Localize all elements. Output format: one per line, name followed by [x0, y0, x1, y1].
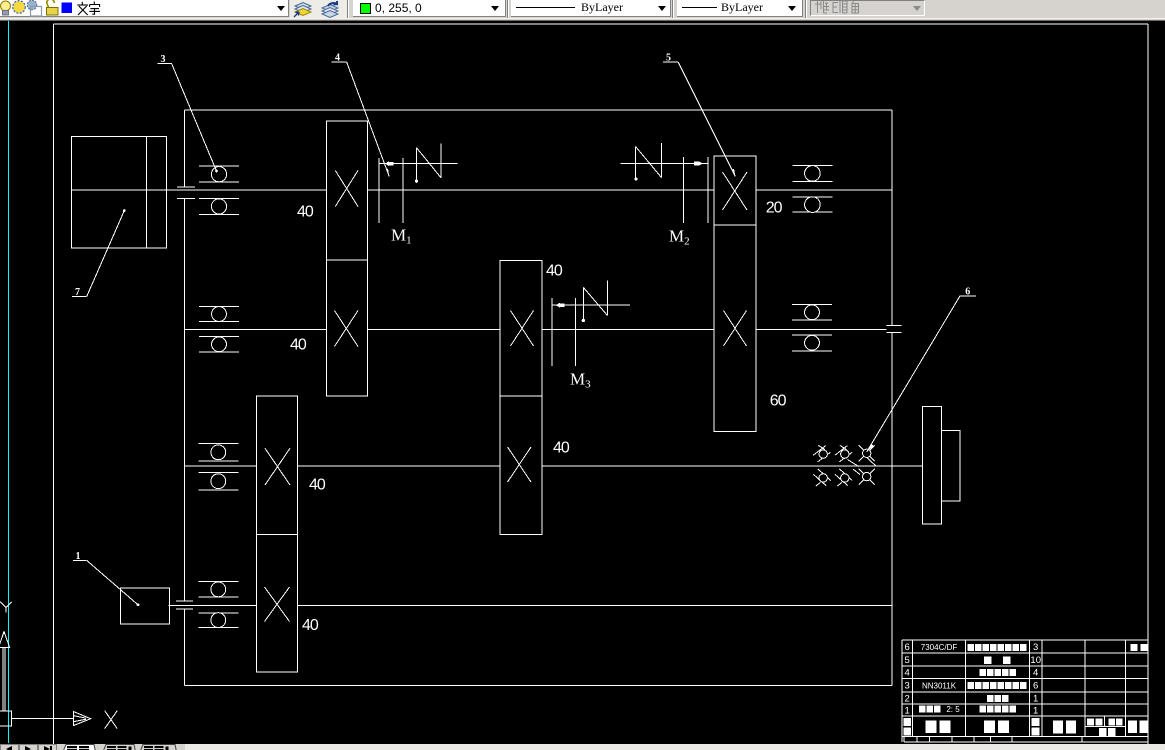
svg-text:4: 4	[335, 53, 340, 64]
svg-text:10: 10	[1030, 655, 1041, 666]
svg-text:40: 40	[302, 617, 319, 634]
svg-text:5: 5	[905, 655, 910, 666]
svg-text:1: 1	[76, 551, 81, 562]
svg-text:NN3011K: NN3011K	[922, 682, 957, 691]
svg-text:1: 1	[1033, 694, 1038, 705]
svg-text:40: 40	[309, 477, 326, 494]
svg-text:3: 3	[905, 681, 910, 692]
svg-text:1: 1	[1033, 706, 1038, 717]
svg-text:2: 2	[905, 694, 910, 705]
svg-text:6: 6	[1033, 681, 1038, 692]
svg-text:40: 40	[546, 263, 563, 280]
svg-text:40: 40	[297, 204, 314, 221]
svg-text:4: 4	[905, 668, 910, 679]
svg-text:2: 5: 2: 5	[946, 705, 960, 714]
svg-text:7: 7	[75, 287, 80, 298]
svg-text:M2: M2	[669, 227, 690, 248]
svg-text:M3: M3	[570, 370, 591, 391]
svg-text:40: 40	[290, 337, 307, 354]
svg-text:4: 4	[1033, 668, 1038, 679]
svg-text:7304C/DF: 7304C/DF	[921, 643, 958, 652]
svg-text:M1: M1	[391, 226, 412, 247]
svg-text:1: 1	[905, 706, 910, 717]
svg-text:20: 20	[766, 200, 783, 217]
svg-text:3: 3	[1033, 642, 1038, 653]
svg-text:5: 5	[666, 53, 671, 64]
svg-text:40: 40	[553, 440, 570, 457]
svg-text:3: 3	[161, 54, 166, 65]
svg-text:6: 6	[965, 287, 970, 298]
svg-text:6: 6	[905, 642, 910, 653]
svg-text:60: 60	[770, 393, 787, 410]
